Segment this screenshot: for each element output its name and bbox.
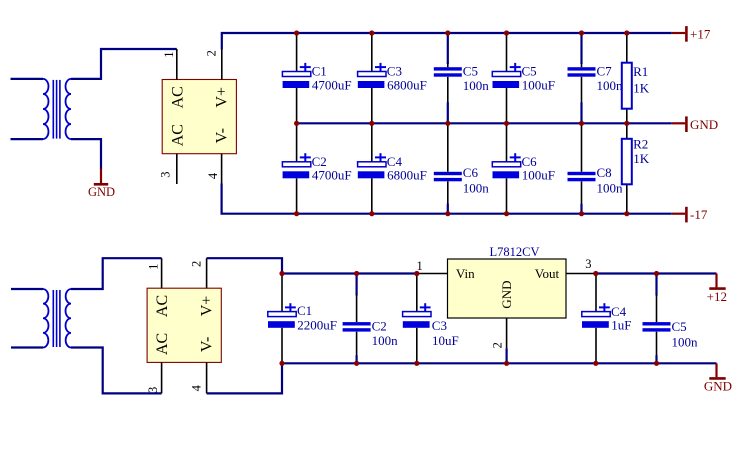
junction [504, 361, 509, 366]
wire [222, 184, 672, 214]
svg-text:3: 3 [146, 387, 160, 393]
svg-text:C2: C2 [372, 318, 387, 333]
wire [297, 122, 672, 124]
svg-text:4: 4 [190, 384, 204, 391]
terminal GND [672, 116, 718, 132]
svg-text:C5: C5 [463, 64, 478, 79]
capacitor C4 6800uF [358, 123, 427, 213]
svg-text:1K: 1K [633, 81, 650, 96]
wire [222, 33, 672, 50]
junction [294, 211, 299, 216]
junction [654, 361, 659, 366]
terminal +17 [672, 26, 711, 42]
ground GND [88, 169, 115, 199]
wire [207, 258, 282, 273]
pin 3 [566, 273, 596, 275]
svg-text:2200uF: 2200uF [297, 318, 337, 333]
pin label 1 [162, 51, 176, 57]
capacitor C7 100n [568, 33, 624, 123]
junction [369, 121, 374, 126]
junction [624, 30, 629, 35]
svg-text:2: 2 [205, 50, 219, 56]
svg-text:2: 2 [490, 342, 504, 348]
capacitor C6 100uF [492, 123, 555, 213]
svg-text:GND: GND [88, 185, 115, 199]
pin 1 [161, 258, 163, 288]
wire [282, 362, 717, 364]
voltage regulator U3 L7812CV [448, 245, 567, 318]
transformer T2 [11, 289, 71, 348]
junction [414, 271, 419, 276]
wire [282, 272, 417, 274]
junction [445, 211, 450, 216]
svg-text:100n: 100n [463, 78, 490, 93]
terminal GND [704, 363, 732, 393]
svg-text:100n: 100n [597, 180, 624, 195]
pin 3 [161, 362, 163, 393]
svg-text:R2: R2 [633, 137, 648, 152]
svg-text:C5: C5 [672, 319, 687, 334]
svg-text:1: 1 [416, 259, 422, 273]
svg-text:3: 3 [159, 171, 173, 177]
pin 4 [221, 154, 223, 184]
junction [354, 271, 359, 276]
svg-text:100n: 100n [372, 333, 399, 348]
svg-text:C8: C8 [597, 165, 612, 180]
wire [71, 258, 162, 289]
junction [279, 271, 284, 276]
pin label 2 [490, 342, 504, 348]
svg-text:1K: 1K [633, 151, 650, 166]
junction [579, 30, 584, 35]
svg-text:100uF: 100uF [522, 168, 555, 183]
svg-text:C3: C3 [432, 318, 447, 333]
wire [207, 363, 282, 393]
svg-text:1: 1 [162, 51, 176, 57]
svg-text:R1: R1 [633, 64, 648, 79]
resistor R2 1K [622, 123, 650, 213]
pin label 1 [416, 259, 422, 273]
junction [445, 121, 450, 126]
pin label 3 [146, 387, 160, 393]
pin label 3 [585, 257, 591, 271]
capacitor C5 100n [434, 33, 490, 123]
svg-text:+17: +17 [690, 27, 711, 42]
svg-text:1uF: 1uF [611, 318, 631, 333]
junction [504, 30, 509, 35]
wire [596, 272, 717, 274]
svg-text:100n: 100n [672, 334, 699, 349]
junction [579, 121, 584, 126]
junction [624, 121, 629, 126]
junction [579, 211, 584, 216]
svg-text:4700uF: 4700uF [312, 77, 352, 92]
svg-text:6800uF: 6800uF [387, 77, 427, 92]
svg-text:10uF: 10uF [432, 333, 459, 348]
bridge rectifier U1 [162, 80, 236, 154]
svg-text:L7812CV: L7812CV [490, 245, 540, 259]
svg-text:V+: V+ [198, 296, 215, 317]
junction [294, 121, 299, 126]
pin label 4 [206, 172, 220, 179]
pin label 2 [205, 50, 219, 56]
pin 3 [176, 154, 178, 184]
svg-text:GND: GND [499, 281, 514, 309]
svg-text:6800uF: 6800uF [387, 168, 427, 183]
pin 1 [417, 273, 447, 275]
wire [506, 348, 508, 363]
junction [354, 361, 359, 366]
junction [279, 361, 284, 366]
svg-text:100uF: 100uF [522, 77, 555, 92]
svg-text:C7: C7 [597, 64, 613, 79]
junction [624, 211, 629, 216]
bridge rectifier U2 [147, 288, 221, 362]
svg-text:GND: GND [690, 117, 718, 132]
transformer T1 [11, 79, 72, 139]
svg-text:2: 2 [190, 261, 204, 267]
capacitor C3 6800uF [358, 33, 427, 123]
junction [445, 30, 450, 35]
pin 2 [206, 258, 208, 288]
svg-text:C4: C4 [611, 304, 627, 319]
capacitor C2 100n [343, 274, 399, 364]
capacitor C5 100uF [492, 33, 555, 123]
svg-text:1: 1 [146, 264, 160, 270]
junction [504, 121, 509, 126]
junction [593, 361, 598, 366]
capacitor C1 2200uF [268, 274, 337, 364]
capacitor C5 100n [643, 274, 699, 364]
junction [504, 211, 509, 216]
pin label 2 [190, 261, 204, 267]
capacitor C4 1uF [582, 274, 632, 364]
svg-text:V+: V+ [214, 87, 231, 108]
wire [71, 139, 101, 169]
svg-text:V-: V- [198, 337, 215, 352]
capacitor C6 100n [434, 123, 490, 213]
svg-text:4: 4 [206, 172, 220, 179]
junction [654, 271, 659, 276]
capacitor C1 4700uF [282, 33, 351, 123]
resistor R1 1K [622, 33, 650, 123]
svg-text:100n: 100n [597, 78, 624, 93]
svg-text:3: 3 [585, 257, 591, 271]
capacitor C3 10uF [403, 274, 459, 364]
junction [593, 271, 598, 276]
svg-text:-17: -17 [690, 207, 708, 222]
capacitor C2 4700uF [282, 123, 351, 213]
svg-text:C1: C1 [297, 303, 312, 318]
junction [369, 30, 374, 35]
svg-text:AC: AC [154, 333, 171, 355]
wire [71, 348, 162, 394]
pin 2 [506, 318, 508, 348]
pin label 4 [190, 384, 204, 391]
junction [294, 30, 299, 35]
svg-text:AC: AC [169, 124, 186, 146]
pin 4 [206, 362, 208, 393]
junction [369, 211, 374, 216]
pin label 3 [159, 171, 173, 177]
svg-text:AC: AC [154, 295, 171, 317]
svg-text:AC: AC [169, 86, 186, 108]
svg-text:100n: 100n [463, 180, 490, 195]
svg-text:4700uF: 4700uF [312, 168, 352, 183]
pin label 1 [146, 264, 160, 270]
terminal +12 [707, 274, 727, 304]
svg-text:C6: C6 [463, 165, 479, 180]
junction [414, 361, 419, 366]
svg-text:Vout: Vout [535, 266, 560, 281]
svg-text:Vin: Vin [456, 266, 475, 281]
pin 1 [176, 49, 178, 80]
svg-text:GND: GND [704, 379, 732, 394]
svg-text:V-: V- [214, 128, 231, 143]
wire [71, 49, 177, 79]
svg-text:+12: +12 [707, 289, 727, 304]
capacitor C8 100n [568, 123, 624, 213]
pin 2 [221, 50, 223, 80]
terminal -17 [672, 207, 708, 223]
